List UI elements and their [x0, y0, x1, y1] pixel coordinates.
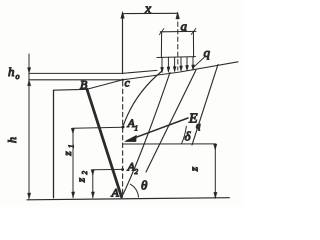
- svg-text:z: z: [76, 177, 88, 183]
- svg-text:z: z: [189, 166, 201, 172]
- svg-text:h: h: [5, 137, 19, 143]
- z dimension right: [214, 144, 217, 198]
- slip line S2 from A at angle theta: [122, 73, 170, 198]
- horizontal reference line for delta/z: [123, 143, 216, 145]
- node A1: [122, 126, 125, 129]
- node C: [122, 79, 124, 81]
- z1 dimension: [71, 127, 123, 198]
- svg-text:2: 2: [135, 168, 139, 176]
- lower line h_o bottom: [29, 79, 123, 81]
- dimension a: [159, 28, 196, 34]
- slip line S3 from A2 to far load edge: [146, 70, 196, 172]
- label z2 (rotated): [76, 171, 90, 184]
- svg-text:θ: θ: [141, 178, 148, 193]
- node A2: [121, 168, 124, 171]
- angle delta arc: [182, 126, 187, 144]
- svg-text:h: h: [8, 64, 15, 79]
- svg-text:c: c: [125, 76, 131, 90]
- load block: [157, 32, 196, 58]
- svg-text:q: q: [204, 45, 211, 60]
- svg-text:x: x: [144, 2, 152, 17]
- svg-text:1: 1: [68, 145, 76, 149]
- svg-text:A: A: [111, 186, 120, 200]
- slip line S1 from A1 to ground: [123, 71, 162, 127]
- svg-text:a: a: [181, 19, 188, 34]
- load arrows: [161, 57, 195, 73]
- svg-text:δ: δ: [185, 129, 192, 144]
- dashed line C to A: [122, 82, 124, 197]
- load centerline dashed: [177, 15, 179, 71]
- angle theta arc: [130, 184, 138, 197]
- slip line S4 short upper right: [192, 65, 218, 146]
- bottom base line: [27, 198, 229, 200]
- svg-text:q: q: [196, 121, 201, 131]
- dimension x: [121, 12, 180, 74]
- z2 dimension: [91, 169, 122, 197]
- svg-text:2: 2: [81, 171, 89, 175]
- retaining wall: [54, 89, 122, 198]
- svg-text:1: 1: [135, 125, 139, 133]
- label z1 (rotated): [62, 145, 76, 157]
- ground surface line from C: [123, 62, 238, 80]
- svg-text:z: z: [62, 151, 74, 157]
- svg-text:o: o: [16, 72, 20, 81]
- h_o dimension arrows: [28, 54, 31, 199]
- upper ground line h_o top: [29, 70, 157, 73]
- force E_q arrow: [125, 118, 188, 142]
- line B-C: [87, 80, 123, 90]
- h dimension bottom arrow: [28, 193, 31, 199]
- svg-text:B: B: [80, 78, 88, 92]
